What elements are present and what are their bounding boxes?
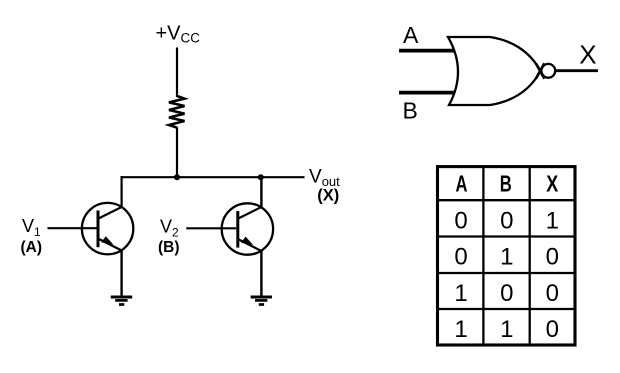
svg-text:A: A [456,171,468,197]
svg-text:X: X [546,171,559,197]
svg-text:1: 1 [500,244,513,271]
svg-text:0: 0 [454,208,467,235]
svg-text:(B): (B) [158,239,180,256]
svg-text:(X): (X) [317,186,339,204]
svg-text:1: 1 [546,208,559,235]
svg-text:1: 1 [500,316,513,343]
svg-text:0: 0 [546,280,559,307]
svg-text:1: 1 [454,280,467,307]
svg-text:0: 0 [500,208,513,235]
svg-text:A: A [403,22,419,48]
svg-text:0: 0 [546,316,559,343]
svg-text:B: B [403,97,418,123]
svg-text:(A): (A) [21,239,43,256]
svg-text:B: B [500,171,512,197]
svg-text:0: 0 [546,244,559,271]
svg-text:0: 0 [454,244,467,271]
svg-text:1: 1 [454,316,467,343]
svg-text:X: X [579,40,596,70]
svg-text:0: 0 [500,280,513,307]
